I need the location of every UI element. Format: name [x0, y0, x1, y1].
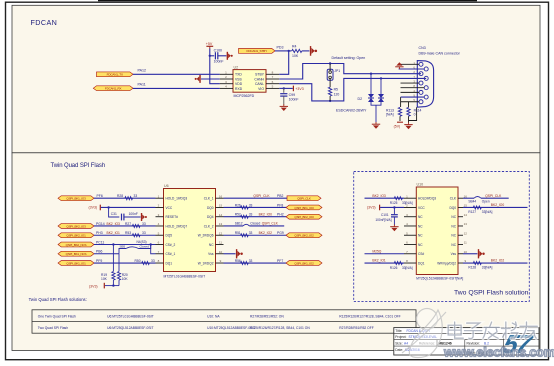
svg-text:VIO: VIO	[258, 87, 264, 91]
ground arrow u10 Vss	[479, 249, 485, 258]
wire row6 left	[94, 244, 156, 246]
svg-text:MT25TL01GHBB8ESF-0SIT: MT25TL01GHBB8ESF-0SIT	[164, 275, 206, 279]
watermark elecfans	[402, 309, 554, 360]
svg-text:QSPI_BK1_IO2: QSPI_BK1_IO2	[294, 261, 314, 265]
svg-text:Default setting: Open: Default setting: Open	[332, 56, 366, 60]
svg-text:16: 16	[219, 194, 223, 198]
wire u10 CS	[365, 253, 405, 255]
junction rail	[112, 284, 114, 286]
svg-text:PD3: PD3	[277, 46, 284, 50]
svg-text:10K: 10K	[101, 277, 108, 281]
net flag QSPI_BK2_IO1	[58, 233, 94, 238]
svg-text:QSPI_BK1_IO1: QSPI_BK1_IO1	[66, 261, 86, 265]
wire VCC cap drop	[109, 207, 120, 217]
net label BK2_IO1 u10	[372, 259, 386, 263]
svg-text:100nF: 100nF	[214, 60, 224, 64]
svg-text:R51: R51	[235, 231, 241, 235]
resistor R56	[235, 259, 253, 265]
ground below C101	[390, 225, 398, 232]
wire u10 Vss right	[463, 253, 477, 255]
svg-text:D2: D2	[358, 97, 363, 101]
wire VCC row	[101, 206, 156, 208]
svg-text:11: 11	[464, 241, 467, 245]
svg-text:HOLD_2#/DQ7: HOLD_2#/DQ7	[166, 224, 188, 228]
svg-text:A4: A4	[404, 342, 408, 346]
svg-text:BK2_IO0: BK2_IO0	[259, 213, 273, 217]
resistor R128	[468, 262, 492, 270]
svg-text:Project:: Project:	[395, 335, 406, 339]
svg-text:33: 33	[134, 194, 138, 198]
svg-text:CS#_2: CS#_2	[166, 243, 176, 247]
solder bridge SB5	[120, 245, 150, 249]
no-ERC ground marker on VSS	[195, 75, 206, 83]
svg-text:Size:: Size:	[395, 342, 402, 346]
junction +5V cap tap	[209, 55, 211, 57]
svg-text:33: 33	[142, 231, 146, 235]
junction D2b	[380, 77, 382, 79]
wire R113 drop	[400, 97, 402, 107]
net label BK2_IO2 PG9	[259, 231, 284, 235]
svg-text:33[N/A]: 33[N/A]	[482, 266, 493, 270]
wire SB bypass	[119, 245, 151, 254]
svg-text:CS#_1: CS#_1	[166, 252, 176, 256]
svg-text:PH2: PH2	[277, 213, 284, 217]
svg-text:10: 10	[219, 250, 223, 254]
svg-text:QSPI_BK1_NCS: QSPI_BK1_NCS	[66, 252, 87, 256]
svg-text:N4(S3): N4(S3)	[137, 240, 147, 244]
wire row1 left	[94, 197, 156, 199]
svg-text:www.elecfans.com: www.elecfans.com	[443, 345, 554, 360]
Twin Quad SPI Flash section title	[51, 163, 105, 169]
wire u10 row8	[365, 262, 405, 264]
wire JP1 top	[329, 64, 331, 71]
svg-text:33: 33	[142, 222, 146, 226]
svg-text:PG14: PG14	[96, 222, 105, 226]
wire row7 right Vss	[224, 253, 236, 255]
net flag QSPI_BK1_IO2	[286, 261, 322, 266]
svg-text:NC: NC	[451, 234, 456, 238]
svg-text:33: 33	[249, 213, 253, 217]
connector CN3 pin circles	[419, 62, 428, 103]
svg-text:R53: R53	[125, 231, 131, 235]
wire u10 cap drop	[393, 207, 395, 214]
svg-text:STBY: STBY	[255, 73, 265, 77]
svg-text:11: 11	[219, 241, 222, 245]
svg-text:33[N/A]: 33[N/A]	[402, 201, 413, 205]
svg-text:U10: U10	[417, 182, 424, 186]
net flag QSPI_BK1_IO1	[58, 261, 94, 266]
svg-text:W#/Vpp/DQ2: W#/Vpp/DQ2	[437, 261, 456, 265]
svg-text:QSPI_CLK: QSPI_CLK	[253, 194, 270, 198]
svg-text:R27: R27	[125, 222, 131, 226]
svg-text:PC11: PC11	[96, 240, 104, 244]
svg-text:BK2_IO3: BK2_IO3	[107, 222, 121, 226]
power (3V3) row2	[89, 205, 101, 211]
svg-text:Two Quad SPI Flash: Two Quad SPI Flash	[38, 326, 68, 330]
wire row7 to pin	[151, 245, 156, 254]
wire FDCAN1_RX to RXD	[133, 87, 220, 89]
wire STBY net	[275, 50, 289, 52]
svg-text:(5V): (5V)	[394, 125, 401, 129]
wire u10 VCC	[380, 206, 404, 208]
connector CN3 DB9 body	[417, 61, 433, 108]
value MT25TL01GHBB8ESF-0SIT	[164, 275, 206, 279]
power (3V3) rail	[89, 283, 104, 289]
svg-text:ESDCAN02-2BWY: ESDCAN02-2BWY	[336, 108, 367, 112]
svg-text:R50: R50	[135, 259, 141, 263]
wire row8 left	[94, 262, 156, 264]
wire u10 DQ2 right	[463, 262, 528, 264]
wire row1 right	[224, 197, 288, 199]
wire FDCAN1_TX to TXD	[133, 73, 220, 75]
wire CANH route	[279, 64, 421, 80]
svg-text:FDCAN1_STBY: FDCAN1_STBY	[246, 49, 267, 53]
svg-text:PB6: PB6	[96, 250, 103, 254]
svg-text:Closed: Closed	[250, 221, 260, 225]
net label BK2_IO2 u10 right	[491, 259, 505, 263]
svg-text:NC: NC	[418, 224, 423, 228]
IC U10 body	[416, 187, 458, 275]
svg-text:BK2_IO1: BK2_IO1	[372, 259, 386, 263]
svg-text:U6:MT25QL512ABB8ESF-0SIT: U6:MT25QL512ABB8ESF-0SIT	[107, 326, 153, 330]
net label PG14 BK2_IO3	[96, 222, 120, 226]
net flag FDCAN1_STBY	[239, 49, 276, 54]
svg-text:Date:: Date:	[395, 348, 403, 352]
wire STBY drop	[279, 51, 289, 74]
wire D2 commons	[371, 102, 381, 122]
svg-text:QSPI_CLK: QSPI_CLK	[297, 197, 311, 201]
FDCAN section box	[12, 5, 540, 153]
junction row6 a	[112, 243, 114, 245]
svg-text:15: 15	[219, 204, 223, 208]
svg-text:Open: Open	[482, 200, 490, 204]
svg-text:NC: NC	[418, 243, 423, 247]
svg-text:33: 33	[151, 259, 155, 263]
svg-text:U6:MT25TL01GHBB8ESF-0SIT: U6:MT25TL01GHBB8ESF-0SIT	[107, 314, 154, 318]
wire JP1 to R5	[329, 79, 331, 88]
junction JP1 top	[329, 62, 331, 64]
svg-text:R125/R126/R127/R128, SB44, C10: R125/R126/R127/R128, SB44, C101 ON	[250, 326, 310, 330]
resistor R114	[407, 107, 422, 116]
jumper JP1	[327, 69, 340, 80]
svg-text:SB5: SB5	[120, 245, 126, 249]
net label BK2_IO0 PH2	[259, 213, 284, 217]
svg-text:TXD: TXD	[235, 73, 242, 77]
net flag QSPI_CLK	[287, 196, 321, 201]
svg-text:HOLD_1#/DQ3: HOLD_1#/DQ3	[166, 197, 188, 201]
svg-text:VSS: VSS	[235, 77, 243, 81]
svg-text:0: 0	[414, 113, 416, 117]
net flag FDCAN1_RX	[93, 86, 133, 91]
label Default setting Open	[332, 56, 366, 60]
svg-text:PF7: PF7	[277, 259, 283, 263]
wire R20 drop	[118, 254, 120, 272]
svg-text:BK2_IO3: BK2_IO3	[372, 194, 386, 198]
svg-text:R27/R28/R51/R52: ON: R27/R28/R51/R52: ON	[250, 314, 284, 318]
svg-text:VCC: VCC	[166, 206, 173, 210]
Twin Quad SPI Flash section box	[12, 153, 540, 351]
svg-text:CS#: CS#	[418, 252, 424, 256]
IC U10 pins	[404, 194, 467, 265]
svg-text:One Twin Quad SPI Flash: One Twin Quad SPI Flash	[38, 314, 76, 318]
svg-text:FDCAN1_RX: FDCAN1_RX	[105, 87, 122, 91]
label N4(S3)	[137, 240, 147, 244]
wire R4 to ground	[302, 50, 310, 52]
svg-text:C99: C99	[289, 93, 295, 97]
svg-text:VDD: VDD	[235, 82, 243, 86]
svg-text:RESET#: RESET#	[166, 215, 179, 219]
svg-text:(3V3): (3V3)	[89, 284, 98, 288]
svg-text:U10: NA: U10: NA	[207, 314, 220, 318]
svg-text:BK2_IO1: BK2_IO1	[107, 231, 121, 235]
svg-text:PF6: PF6	[97, 194, 103, 198]
svg-text:Twin Quad SPI Flash: Twin Quad SPI Flash	[51, 163, 105, 169]
svg-text:NC: NC	[418, 234, 423, 238]
svg-text:QSPI_BK2_IO2: QSPI_BK2_IO2	[294, 234, 314, 238]
wire row3 right	[224, 216, 288, 218]
ground arrow right of C100	[227, 52, 232, 60]
resistor R4	[292, 45, 302, 58]
wire u10 CLK right	[463, 197, 509, 199]
designator U6	[164, 184, 169, 188]
svg-text:QSPI_BK2_IO0: QSPI_BK2_IO0	[294, 215, 314, 219]
net label PF8	[277, 203, 283, 207]
svg-text:QSPI_BK2_IO1: QSPI_BK2_IO1	[66, 234, 86, 238]
capacitor C99	[280, 93, 298, 102]
svg-text:HOLD#/DQ3: HOLD#/DQ3	[418, 197, 436, 201]
svg-text:NC: NC	[451, 224, 456, 228]
svg-text:10K: 10K	[122, 277, 129, 281]
label Two QSPI Flash solution	[454, 289, 529, 296]
resistor R127	[468, 206, 492, 214]
wire +5V to VDD	[210, 49, 220, 84]
wire u10 row1	[365, 197, 405, 199]
svg-text:DB9-male CAN connector: DB9-male CAN connector	[419, 52, 461, 56]
svg-text:JP1: JP1	[334, 69, 340, 73]
diode D2 ESD dual TVS	[358, 94, 385, 102]
svg-text:Vss: Vss	[451, 252, 457, 256]
svg-text:13: 13	[464, 222, 468, 226]
svg-text:PG9: PG9	[277, 231, 284, 235]
power (3V3) u10	[367, 205, 380, 211]
net label BK2_IO0 u10	[491, 203, 505, 207]
svg-text:MT25QL512ABB8ESF-0SIT[N/A]: MT25QL512ABB8ESF-0SIT[N/A]	[416, 277, 463, 281]
svg-text:PF9: PF9	[96, 259, 102, 263]
wire row5 left	[94, 234, 156, 236]
wire row2 right	[224, 206, 288, 208]
svg-text:R125/R126/R127/R128, SB44, C10: R125/R126/R127/R128, SB44, C101 OFF	[339, 314, 400, 318]
wire R19 drop	[112, 245, 114, 272]
svg-text:[N/A]: [N/A]	[386, 113, 394, 117]
wire VIO to C99	[283, 88, 285, 92]
svg-text:BK2_IO0: BK2_IO0	[491, 203, 505, 207]
wire C100 to ground	[218, 55, 226, 57]
net flag QSPI_BK2_IO3	[58, 224, 94, 229]
net label QSPI_CLK PB2	[253, 194, 283, 198]
power +3V3 on VIO	[279, 86, 304, 92]
svg-text:CANL: CANL	[255, 82, 264, 86]
svg-text:Title:: Title:	[395, 329, 402, 333]
top cropped border line	[98, 0, 477, 2]
resistor R53	[125, 231, 146, 237]
wire R114 top	[408, 102, 410, 108]
svg-text:VCC: VCC	[418, 206, 425, 210]
net label PA11	[138, 82, 146, 86]
svg-text:R127: R127	[468, 210, 476, 214]
wire VSS pin	[201, 78, 220, 80]
connector CN3 pin stubs	[401, 61, 425, 102]
resistor R52	[235, 213, 253, 219]
svg-text:FDCAN: FDCAN	[31, 18, 58, 27]
svg-text:R5: R5	[334, 87, 338, 91]
svg-text:QSPI_BK2_IO3: QSPI_BK2_IO3	[66, 224, 86, 228]
svg-text:W_1#/DQ2: W_1#/DQ2	[198, 261, 214, 265]
net label PB6	[96, 250, 103, 254]
wire u10 DQ0 right	[463, 206, 528, 208]
svg-text:33: 33	[249, 231, 253, 235]
wire R5 bottom	[329, 96, 331, 101]
solder bridge SB12	[235, 221, 261, 226]
ground arrow Vss	[237, 249, 243, 258]
svg-text:R128: R128	[468, 266, 476, 270]
capacitor C100	[214, 49, 224, 64]
svg-text:33[N/A]: 33[N/A]	[482, 210, 493, 214]
junction D2a	[370, 73, 372, 75]
net flag QSPI_BK2_NCS	[58, 242, 94, 247]
svg-text:QSPI_BK2_NCS: QSPI_BK2_NCS	[66, 243, 87, 247]
svg-text:U6: U6	[164, 184, 169, 188]
svg-text:C100: C100	[214, 49, 222, 53]
junction u10 VCC	[393, 206, 395, 208]
wire C31 to ground	[124, 216, 141, 218]
value MT25QL512ABB8ESF-0SIT	[416, 277, 463, 281]
svg-text:R125: R125	[390, 201, 398, 205]
junction row6 b	[150, 243, 152, 245]
svg-text:R56: R56	[235, 259, 241, 263]
net flag QSPI_BK1_NCS	[58, 251, 94, 256]
resistor R20	[117, 272, 128, 281]
svg-text:R4: R4	[292, 45, 297, 49]
wire C99 to ground	[283, 96, 285, 105]
svg-text:W_2#/DQ6: W_2#/DQ6	[198, 234, 214, 238]
net flag QSPI_BK2_IO2	[286, 233, 322, 238]
svg-text:R27/R28/R51/R52 OFF: R27/R28/R51/R52 OFF	[339, 326, 373, 330]
svg-text:R126: R126	[390, 266, 398, 270]
svg-text:14: 14	[464, 213, 468, 217]
svg-text:R52: R52	[235, 213, 241, 217]
svg-text:C101: C101	[381, 213, 389, 217]
svg-text:PH3: PH3	[96, 231, 103, 235]
svg-text:BK2_IO2: BK2_IO2	[259, 231, 273, 235]
svg-text:Two QSPI Flash solution: Two QSPI Flash solution	[454, 289, 529, 296]
title block	[394, 328, 539, 355]
svg-text:+3V3: +3V3	[295, 87, 303, 91]
wire body bottom to R114	[409, 107, 417, 120]
IC U2 MCP2562FD body	[233, 70, 266, 93]
junction STBY	[288, 50, 290, 52]
label Twin Quad SPI Flash solutions	[29, 297, 87, 302]
designator U2	[234, 65, 239, 69]
svg-text:PF8: PF8	[277, 203, 283, 207]
resistor R5	[328, 87, 339, 96]
power (5V) label	[394, 122, 403, 128]
svg-text:120: 120	[334, 92, 340, 96]
svg-text:NC: NC	[209, 243, 214, 247]
resistor R50	[135, 259, 155, 265]
ground arrow right of C31	[142, 213, 147, 221]
wire to R4	[289, 50, 292, 52]
net label PF7	[277, 259, 283, 263]
net label PD3	[277, 46, 284, 50]
ground arrow right of R4	[311, 46, 318, 56]
resistor R19	[101, 272, 115, 281]
wire pulls to rail	[105, 280, 119, 286]
wire DB9 pin8 net	[401, 96, 425, 98]
svg-text:R28: R28	[117, 194, 123, 198]
svg-text:12: 12	[464, 231, 468, 235]
net label PF9	[96, 259, 102, 263]
svg-text:33: 33	[249, 259, 253, 263]
svg-text:PA12: PA12	[138, 69, 147, 73]
wire D2a drop	[370, 74, 372, 94]
svg-text:CLK: CLK	[450, 197, 457, 201]
svg-text:100nF: 100nF	[289, 98, 299, 102]
svg-text:CN3: CN3	[419, 46, 426, 50]
svg-text:Vss: Vss	[208, 252, 214, 256]
wire row4 right	[224, 225, 285, 227]
resistor R126	[390, 262, 413, 271]
svg-text:DQ4: DQ4	[207, 215, 214, 219]
net label PF6	[97, 194, 103, 198]
wire DB9 gnd pin	[399, 68, 425, 70]
svg-text:QSPI_CLK: QSPI_CLK	[485, 194, 502, 198]
svg-text:CLK_2: CLK_2	[204, 224, 214, 228]
net label BK2_IO3 u10	[372, 194, 386, 198]
svg-text:100nF[N/A]: 100nF[N/A]	[375, 218, 391, 222]
dashed box Two QSPI Flash solution	[354, 172, 530, 302]
wire C101 gnd	[393, 217, 395, 225]
svg-text:QSPI_CLK: QSPI_CLK	[262, 221, 279, 225]
wire row7 left	[94, 253, 119, 255]
net flag FDCAN1_TX	[97, 72, 134, 77]
svg-text:NC: NC	[451, 215, 456, 219]
svg-text:DQ0: DQ0	[449, 206, 456, 210]
value MCP2562FD	[234, 94, 255, 98]
svg-text:DQ1: DQ1	[418, 261, 425, 265]
svg-text:NC: NC	[418, 215, 423, 219]
wire R113 bottom	[399, 116, 401, 121]
net flag QSPI_BK2_IO0	[286, 214, 322, 219]
svg-text:SB12: SB12	[235, 221, 243, 225]
svg-text:14: 14	[219, 213, 223, 217]
svg-text:Twin Quad SPI Flash solutions:: Twin Quad SPI Flash solutions:	[29, 297, 87, 302]
net label PH3 BK2_IO1	[96, 231, 120, 235]
svg-text:Closed: Closed	[140, 245, 150, 249]
svg-text:PB2: PB2	[277, 194, 284, 198]
wire CANL route	[279, 78, 426, 101]
wire D2b drop	[380, 78, 382, 94]
svg-text:U2: U2	[234, 65, 239, 69]
table row2	[38, 326, 374, 330]
svg-text:M25Q: M25Q	[372, 250, 381, 254]
svg-text:33[N/A]: 33[N/A]	[402, 266, 413, 270]
net flag QSPI_BK1_IO3	[58, 196, 94, 201]
svg-text:DQ1: DQ1	[166, 261, 173, 265]
svg-text:DQ5: DQ5	[166, 234, 173, 238]
svg-text:DQ0: DQ0	[207, 206, 214, 210]
wire row5 right	[224, 234, 288, 236]
svg-text:RXD: RXD	[235, 87, 243, 91]
